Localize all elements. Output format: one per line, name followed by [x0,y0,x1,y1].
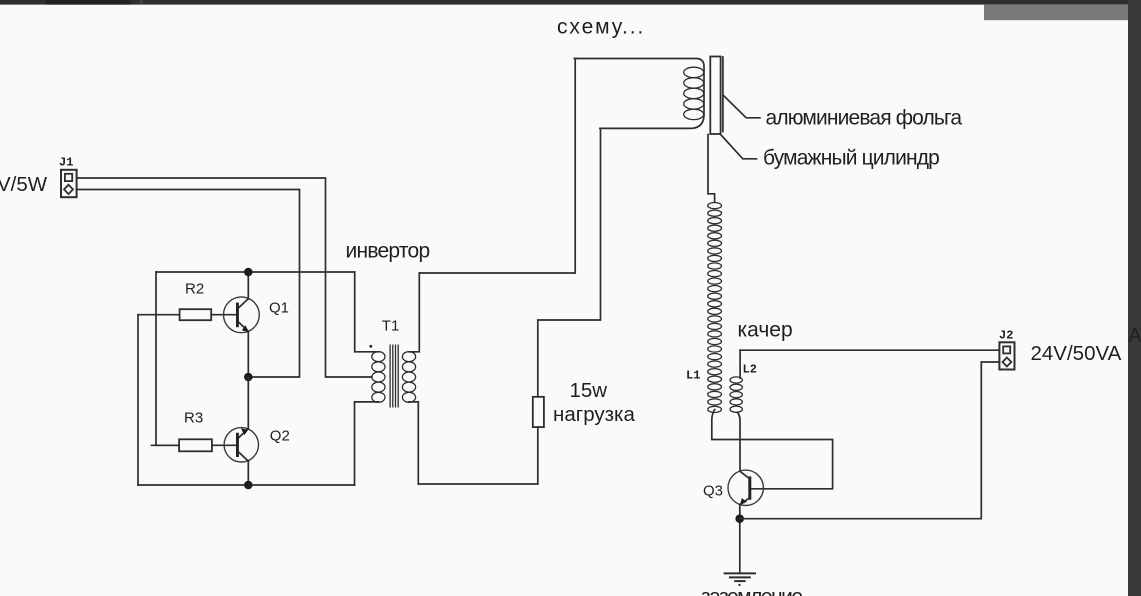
svg-text:L1: L1 [686,369,700,383]
wire load bottom rail [418,427,538,484]
wire bottom rail [138,484,355,486]
svg-text:R3: R3 [184,410,203,427]
aluminium foil rectangle [710,57,720,135]
svg-text:схему...: схему... [557,16,645,39]
wire J1 pin1 to T1 center tap [77,178,372,377]
T1 secondary winding [402,352,415,403]
connector J2 [999,342,1014,369]
svg-text:нагрузка: нагрузка [553,403,635,426]
pointer to paper cylinder [721,135,757,159]
wire T1 primary top lead [355,272,379,352]
connector J1 [61,170,77,197]
node Q3 emitter junction [735,514,744,523]
svg-text:L2: L2 [743,363,757,377]
T1 core [390,345,398,408]
node mid junction [244,373,253,382]
resistor R3 [179,439,212,451]
svg-text:T1: T1 [382,318,400,335]
top bar bluish separator line [140,0,143,5]
T1 primary winding [372,352,385,403]
node bottom junction [244,481,253,490]
wire emitter node to J2 pin2 [740,362,1000,519]
wire Q1 collector [247,272,249,299]
transistor Q1 [224,297,260,333]
wire T1 secondary bottom lead [409,402,418,484]
wire L1 bottom to Q3 base [712,410,833,489]
svg-text:Q2: Q2 [270,428,290,445]
svg-text:V/5W: V/5W [0,173,48,196]
wire Q2 collector from mid node [247,377,249,429]
transistor Q2 [224,428,258,462]
svg-text:J2: J2 [999,329,1013,343]
inductor L2 [730,377,742,412]
svg-text:Q3: Q3 [703,483,723,500]
svg-text:J1: J1 [59,156,73,170]
wire Q3 emitter down [739,505,741,573]
svg-text:инвертор: инвертор [346,240,430,263]
wire top rail (Q1 collector rail) [156,271,355,273]
HV coil turns [684,67,704,119]
wire T1 secondary top lead [409,273,419,352]
top dark browser bar [0,0,1141,5]
wire Q1 emitter to mid node [247,332,249,378]
wire R3 to Q2 base [212,444,236,446]
svg-text:качер: качер [738,319,793,342]
resistor R2 [180,309,212,320]
wire HV coil bottom to load [538,128,601,396]
svg-text:R2: R2 [185,281,204,298]
ground symbol [725,573,755,586]
top-right gray block [984,5,1128,21]
svg-text:24V/50VA: 24V/50VA [1031,342,1122,365]
wire kacher line to J2 pin1 [740,349,999,351]
svg-text:бумажный цилиндр: бумажный цилиндр [763,147,939,170]
wire J1 pin2 down to mid node [77,190,300,378]
paper cylinder line [722,57,724,132]
right dark sidebar strip [1128,0,1141,596]
wire T1 primary bottom lead [355,402,379,485]
wire left cross-coupling vertical (top rail to R3) [156,272,179,445]
svg-text:алюминиевая фольга: алюминиевая фольга [766,107,963,130]
pointer to aluminium foil [724,96,760,118]
wire T1 secondary top to HV coil [419,59,575,274]
top bar darker tab segment [46,0,131,5]
transistor Q3 [728,470,763,505]
svg-text:15w: 15w [570,379,608,402]
svg-text:Q1: Q1 [269,300,289,317]
inductor L1 [708,203,722,413]
svg-text:A: A [1129,326,1141,347]
node top junction [244,268,253,277]
wire R3 left lead [152,444,180,446]
wire cylinder down to L1 [708,135,715,203]
resistor 15w load [533,397,544,427]
wire R2 to Q1 base [211,314,236,316]
wire L2 top lead from J2 line [739,350,741,378]
wire far-left vertical (R2 to bottom rail) [137,315,139,485]
T1 phase dot [369,345,372,348]
wire L2 bottom to Q3 collector [738,413,741,472]
HV coil outline [574,59,704,129]
svg-text:заземление: заземление [701,586,802,596]
wire R2 left lead [138,314,180,316]
wire Q2 emitter to bottom rail [247,461,249,485]
